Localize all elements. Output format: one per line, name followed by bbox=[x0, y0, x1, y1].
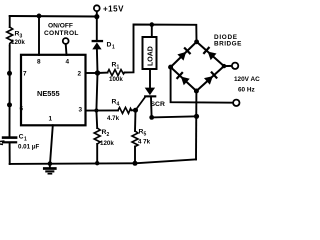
svg-text:2: 2 bbox=[107, 132, 110, 138]
svg-text:1: 1 bbox=[49, 116, 53, 123]
svg-text:0.01 μF: 0.01 μF bbox=[18, 144, 40, 151]
svg-text:CONTROL: CONTROL bbox=[44, 30, 79, 37]
svg-text:5: 5 bbox=[144, 132, 147, 138]
svg-text:1: 1 bbox=[24, 137, 27, 143]
svg-text:1: 1 bbox=[117, 65, 120, 71]
svg-text:3: 3 bbox=[79, 107, 83, 114]
svg-text:120k: 120k bbox=[11, 39, 25, 46]
svg-text:2: 2 bbox=[78, 71, 82, 78]
svg-text:8: 8 bbox=[37, 59, 41, 66]
svg-text:4 7k: 4 7k bbox=[138, 139, 151, 146]
svg-text:120k: 120k bbox=[100, 140, 114, 147]
svg-text:+15V: +15V bbox=[103, 4, 124, 13]
svg-text:LOAD: LOAD bbox=[147, 46, 154, 66]
svg-text:ON/OFF: ON/OFF bbox=[48, 22, 73, 29]
svg-text:D: D bbox=[107, 42, 112, 49]
svg-text:4: 4 bbox=[66, 59, 70, 66]
svg-text:1: 1 bbox=[112, 45, 115, 51]
svg-text:100k: 100k bbox=[109, 76, 123, 83]
svg-text:4: 4 bbox=[117, 101, 120, 107]
svg-text:6: 6 bbox=[20, 106, 24, 113]
svg-text:C: C bbox=[19, 134, 24, 141]
svg-text:7: 7 bbox=[23, 71, 27, 78]
svg-text:NE555: NE555 bbox=[37, 89, 60, 98]
svg-text:60 Hz: 60 Hz bbox=[238, 87, 255, 94]
svg-text:120V AC: 120V AC bbox=[234, 76, 260, 83]
svg-text:BRIDGE: BRIDGE bbox=[214, 41, 242, 48]
svg-text:4.7k: 4.7k bbox=[107, 115, 120, 122]
svg-text:SCR: SCR bbox=[151, 101, 165, 108]
